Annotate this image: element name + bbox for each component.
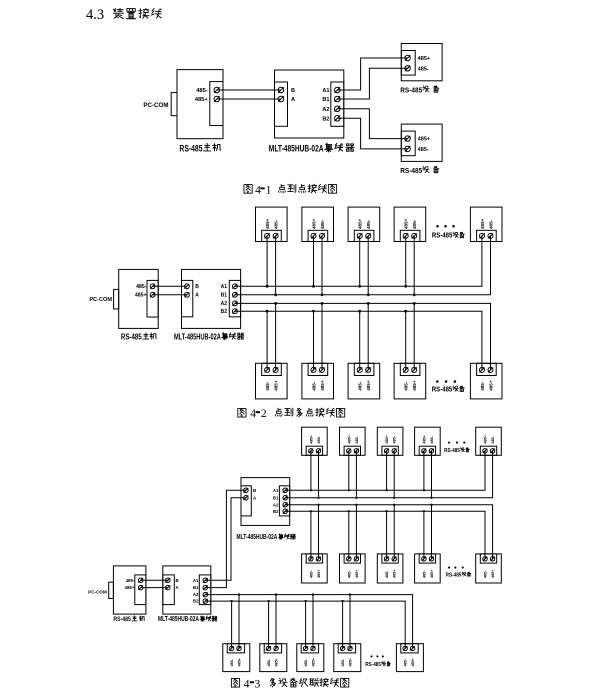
- fig3: device A3 screw 485+: [384, 449, 388, 453]
- fig3: device B5 screw 485+: [490, 557, 494, 561]
- fig3: RS-485 device C1 (bottom row) box: [223, 644, 250, 672]
- fig1: host COM port tab: [171, 93, 177, 116]
- svg-text:PC-COM: PC-COM: [89, 297, 112, 303]
- svg-text:485-: 485-: [422, 570, 426, 578]
- svg-text:1: 1: [266, 184, 272, 196]
- svg-text:485+: 485+: [135, 293, 147, 299]
- svg-text:485+: 485+: [349, 658, 353, 666]
- fig2: RS-485 device T4 (top row) box: [394, 207, 426, 241]
- fig2: hub screw B2: [233, 309, 238, 314]
- svg-text:485+: 485+: [320, 380, 325, 391]
- caption figure 4-2: [238, 408, 246, 417]
- svg-text:485-: 485-: [126, 578, 135, 583]
- caption figure 4-3: [231, 678, 239, 687]
- fig1: hub screw B2: [335, 116, 341, 122]
- svg-text:4: 4: [255, 184, 261, 196]
- svg-text:PC-COM: PC-COM: [88, 590, 107, 595]
- fig3: device C2 terminal strip: [264, 644, 281, 653]
- fig3: device C4 terminal strip: [338, 644, 355, 653]
- svg-text:485+: 485+: [317, 570, 321, 578]
- svg-text:485-: 485-: [358, 381, 363, 391]
- fig2: bus line A2: [235, 303, 491, 370]
- fig2: device U3 screw 485+: [366, 367, 371, 372]
- svg-text:B2: B2: [273, 509, 279, 514]
- fig2: device T3 screw 485+: [357, 233, 362, 238]
- fig2: device U4 screw 485-: [403, 367, 408, 372]
- svg-text:RS-485: RS-485: [365, 662, 381, 668]
- fig2: RS-485 device T2 (top row) box: [302, 207, 334, 241]
- svg-text:PC-COM: PC-COM: [143, 102, 168, 109]
- fig2: device T2 screw 485+: [311, 233, 316, 238]
- fig1: host screw 485+: [214, 96, 220, 102]
- fig3: device B2 screw 485+: [354, 557, 358, 561]
- svg-text:RS-485: RS-485: [432, 231, 453, 240]
- fig2: hub screw A: [185, 292, 190, 297]
- fig3: device C4 screw 485-: [340, 646, 344, 650]
- svg-text:B1: B1: [322, 97, 329, 103]
- fig3: device B5 terminal strip: [480, 554, 496, 563]
- svg-text:485+: 485+: [265, 218, 270, 229]
- svg-text:RS-485: RS-485: [113, 616, 131, 623]
- fig2: hub right terminal strip: [229, 280, 240, 316]
- fig3: device A2 screw 485+: [347, 449, 351, 453]
- fig1: host screw 485-: [214, 87, 220, 93]
- svg-text:485-: 485-: [491, 435, 495, 443]
- fig3: hub left terminal strip: [241, 486, 251, 516]
- fig3: hub MLT-485HUB-02A box: [241, 478, 290, 526]
- svg-text:485+: 485+: [275, 658, 279, 666]
- svg-text:B1: B1: [221, 293, 228, 299]
- fig3: host screw 485-: [138, 578, 143, 583]
- svg-text:485-: 485-: [230, 658, 234, 666]
- fig2: drop wire top device T1 485+ to A1: [266, 236, 268, 286]
- fig2: bus line B2: [235, 311, 482, 370]
- fig2: drop wire top device T3 485- to B1: [367, 236, 369, 295]
- fig3: hub screw B2: [203, 599, 208, 604]
- fig2: device U5 screw 485+: [488, 367, 493, 372]
- svg-text:485+: 485+: [480, 218, 485, 229]
- fig2: drop wire top device T1 485- to B1: [275, 236, 277, 295]
- fig3: hub left terminal strip: [163, 575, 175, 605]
- fig3: ellipsis top row: [448, 442, 450, 444]
- fig2: RS-485 device U4 (bottom row) box: [394, 363, 426, 399]
- fig3: device C2 screw 485-: [266, 646, 270, 650]
- svg-text:A1: A1: [221, 284, 228, 290]
- fig3: device C3 screw 485+: [311, 646, 315, 650]
- fig3: drop wire top device A3 485+ to A1: [386, 451, 388, 491]
- fig3: upper bus line A2: [285, 505, 492, 559]
- fig2: drop wire top device T3 485+ to A1: [359, 236, 361, 286]
- fig3: device C5 screw 485+: [410, 646, 414, 650]
- fig3: RS-485 device C5 (bottom row) box: [396, 644, 423, 672]
- fig2: device U1 screw 485-: [265, 367, 270, 372]
- fig3: device C1 screw 485-: [229, 646, 233, 650]
- fig2: device U2 screw 485+: [320, 367, 325, 372]
- svg-text:B1: B1: [193, 585, 199, 590]
- fig1: device D2 terminal strip: [401, 131, 415, 156]
- fig2: hub screw A1: [233, 284, 238, 289]
- fig1: host terminal strip: [210, 82, 223, 126]
- fig2: device T5 terminal strip: [477, 230, 497, 241]
- svg-text:RS-485: RS-485: [444, 448, 460, 454]
- fig3: riser wire middle device B4 485- to B2: [423, 511, 425, 559]
- svg-text:485+: 485+: [393, 570, 397, 578]
- fig3: wire host to lower hub A: [141, 587, 168, 589]
- fig3: device C5 terminal strip: [401, 644, 418, 653]
- svg-text:A2: A2: [273, 502, 279, 507]
- fig3: hub MLT-485HUB-02A box: [163, 566, 211, 614]
- fig3: hub screw A2: [283, 503, 288, 508]
- fig2: device U4 screw 485+: [412, 367, 417, 372]
- fig3: device C1 screw 485+: [237, 646, 241, 650]
- svg-text:485+: 485+: [238, 658, 242, 666]
- fig3: drop wire top device A1 485+ to A1: [310, 451, 312, 491]
- fig3: lower bus line A2: [205, 595, 412, 649]
- svg-text:485-: 485-: [311, 381, 316, 391]
- fig2: riser wire bottom device U2 485+ to A2: [321, 303, 323, 370]
- svg-text:4: 4: [244, 678, 250, 690]
- fig3: riser wire middle device B1 485- to B2: [310, 511, 312, 559]
- fig1: wire hub B2 to device D2 485-: [337, 118, 407, 149]
- fig3: device C1 terminal strip: [227, 644, 244, 653]
- fig3: upper bus line A1: [285, 451, 485, 491]
- svg-text:A2: A2: [221, 301, 228, 307]
- fig3: riser wire middle device B3 485+ to A2: [393, 505, 395, 559]
- svg-text:RS-485: RS-485: [446, 572, 462, 578]
- svg-text:MLT-485HUB-02A: MLT-485HUB-02A: [236, 534, 277, 541]
- fig3: device A5 screw 485-: [490, 449, 494, 453]
- fig3: RS-485 device A4 (top row) box: [415, 427, 441, 455]
- svg-text:B: B: [176, 578, 179, 583]
- fig3: RS-485 device C4 (bottom row) box: [334, 644, 361, 672]
- fig1: hub screw B: [278, 87, 284, 93]
- fig2: riser wire bottom device U1 485+ to A2: [275, 303, 277, 370]
- fig2: device U2 screw 485-: [311, 367, 316, 372]
- svg-text:485+: 485+: [125, 585, 135, 590]
- svg-text:485-: 485-: [385, 570, 389, 578]
- fig2: drop wire top device T2 485+ to A1: [313, 236, 315, 286]
- fig3: drop wire top device A2 485- to B1: [355, 451, 357, 498]
- fig3: device B4 terminal strip: [419, 554, 435, 563]
- fig3: host COM port tab: [109, 582, 114, 598]
- svg-text:A2: A2: [193, 592, 199, 597]
- fig3: RS-485 device A1 (top row) box: [302, 427, 328, 455]
- fig2: device T4 screw 485+: [403, 233, 408, 238]
- fig3: device A5 screw 485+: [483, 449, 487, 453]
- fig3: device A5 terminal strip: [480, 446, 496, 455]
- fig2: drop wire top device T4 485+ to A1: [405, 236, 407, 286]
- fig3: riser wire bottom device C1 485+ to A2: [238, 595, 240, 649]
- fig2: hub screw B: [185, 284, 190, 289]
- fig3: device A3 screw 485-: [392, 449, 396, 453]
- svg-text:485-: 485-: [484, 570, 488, 578]
- fig3: riser wire bottom device C3 485+ to A2: [312, 595, 314, 649]
- svg-text:485-: 485-: [309, 570, 313, 578]
- fig3: hub screw B: [244, 488, 249, 493]
- fig3: RS-485 device B5 (middle row) box: [476, 554, 502, 583]
- fig3: device B4 screw 485+: [429, 557, 433, 561]
- svg-text:485-: 485-: [404, 381, 409, 391]
- fig2: device T5 screw 485-: [488, 233, 493, 238]
- svg-text:485-: 485-: [355, 435, 359, 443]
- fig3: RS-485 device B3 (middle row) box: [377, 554, 403, 583]
- fig3: device A2 screw 485-: [354, 449, 358, 453]
- caption figure 4-1: [244, 185, 252, 194]
- fig2: device T1 screw 485+: [265, 233, 270, 238]
- fig3: riser wire bottom device C4 485+ to A2: [349, 595, 351, 649]
- fig2: RS-485 device U5 (bottom row) box: [470, 363, 502, 399]
- fig3: ellipsis bottom row: [370, 655, 372, 657]
- fig3: riser wire middle device B4 485+ to A2: [431, 505, 433, 559]
- fig3: RS-485 host box: [113, 566, 145, 614]
- svg-text:485-: 485-: [393, 435, 397, 443]
- svg-text:485-: 485-: [430, 435, 434, 443]
- svg-text:485+: 485+: [311, 218, 316, 229]
- fig2: hub screw A2: [233, 301, 238, 306]
- fig1: hub right terminal strip: [331, 82, 344, 126]
- svg-text:485-: 485-: [320, 219, 325, 229]
- fig2: RS-485 device U1 (bottom row) box: [256, 363, 288, 399]
- svg-text:485+: 485+: [273, 380, 278, 391]
- fig3: drop wire top device A3 485- to B1: [393, 451, 395, 498]
- fig2: device U3 terminal strip: [354, 363, 374, 375]
- svg-text:485-: 485-: [136, 284, 147, 290]
- svg-text:485+: 485+: [412, 380, 417, 391]
- svg-text:B1: B1: [273, 495, 279, 500]
- fig3: RS-485 device A5 (top row) box: [476, 427, 502, 455]
- fig2: device U3 screw 485-: [357, 367, 362, 372]
- svg-text:485-: 485-: [341, 658, 345, 666]
- svg-text:485-: 485-: [418, 147, 429, 153]
- fig1: device D1 screw 485-: [405, 66, 410, 71]
- fig3: cascade wire lower hub B1 to upper hub B: [205, 490, 246, 587]
- fig3: host terminal strip: [135, 575, 146, 605]
- fig3: device C4 screw 485+: [348, 646, 352, 650]
- fig1: wire hub B1 to device D1 485-: [337, 68, 407, 99]
- svg-text:485-: 485-: [304, 658, 308, 666]
- fig3: riser wire middle device B2 485- to B2: [348, 511, 350, 559]
- fig2: device T5 screw 485+: [480, 233, 485, 238]
- fig2: device U5 terminal strip: [477, 363, 497, 375]
- fig2: hub screw B1: [233, 292, 238, 297]
- fig3: RS-485 device C3 (bottom row) box: [297, 644, 324, 672]
- fig3: device B2 terminal strip: [344, 554, 360, 563]
- fig3: device A4 screw 485-: [429, 449, 433, 453]
- fig3: RS-485 device A3 (top row) box: [377, 427, 403, 455]
- svg-text:A1: A1: [273, 488, 279, 493]
- fig3: device C3 screw 485-: [303, 646, 307, 650]
- fig2: bus line B1: [235, 236, 491, 295]
- svg-text:485+: 485+: [385, 435, 389, 443]
- fig2: RS-485 device T5 (top row) box: [470, 207, 502, 241]
- fig3: device A1 screw 485-: [316, 449, 320, 453]
- fig2: riser wire bottom device U3 485+ to A2: [367, 303, 369, 370]
- fig3: device B2 screw 485-: [347, 557, 351, 561]
- fig2: ellipsis bottom row: [436, 380, 439, 383]
- svg-text:A1: A1: [322, 88, 329, 94]
- svg-text:RS-485: RS-485: [179, 143, 202, 153]
- fig3: lower bus line B2: [205, 601, 405, 648]
- svg-text:MLT-485HUB-02A: MLT-485HUB-02A: [158, 616, 199, 623]
- svg-text:485-: 485-: [317, 435, 321, 443]
- fig3: cascade wire lower hub A1 to upper hub A: [205, 498, 246, 581]
- svg-text:RS-485: RS-485: [121, 332, 142, 341]
- svg-text:A: A: [195, 293, 199, 299]
- fig1: device D1 terminal strip: [401, 51, 415, 76]
- fig3: device A4 screw 485+: [422, 449, 426, 453]
- fig1: RS-485 device D1 box: [401, 44, 442, 81]
- fig1: RS-485 host box: [177, 70, 223, 139]
- svg-text:B2: B2: [193, 599, 199, 604]
- svg-text:B2: B2: [221, 309, 228, 315]
- fig3: device A4 terminal strip: [419, 446, 435, 455]
- fig3: device B5 screw 485-: [483, 557, 487, 561]
- svg-text:485+: 485+: [488, 380, 493, 391]
- svg-text:485+: 485+: [312, 658, 316, 666]
- svg-text:485+: 485+: [195, 97, 209, 103]
- svg-text:A1: A1: [193, 578, 199, 583]
- svg-text:4: 4: [250, 408, 256, 420]
- fig2: device T1 screw 485-: [273, 233, 278, 238]
- fig2: drop wire top device T2 485- to B1: [321, 236, 323, 295]
- fig3: drop wire top device A2 485+ to A1: [348, 451, 350, 491]
- svg-text:485+: 485+: [491, 570, 495, 578]
- fig2: RS-485 host box: [119, 269, 159, 328]
- fig2: RS-485 device U2 (bottom row) box: [302, 363, 334, 399]
- svg-text:485+: 485+: [484, 435, 488, 443]
- svg-text:B: B: [253, 488, 256, 493]
- fig3: ellipsis middle row: [448, 567, 450, 569]
- fig2: host screw 485-: [150, 284, 155, 289]
- fig3: RS-485 device A2 (top row) box: [340, 427, 366, 455]
- fig3: drop wire top device A1 485- to B1: [318, 451, 320, 498]
- fig3: device B1 screw 485-: [309, 557, 313, 561]
- svg-text:485+: 485+: [347, 435, 351, 443]
- svg-text:485+: 485+: [366, 380, 371, 391]
- fig1: RS-485 device D2 box: [401, 124, 442, 161]
- fig1: device D1 screw 485+: [405, 55, 410, 60]
- svg-text:485-: 485-: [418, 66, 429, 72]
- fig1: wire host 485+ to hub A: [217, 98, 281, 100]
- fig3: device B1 screw 485+: [316, 557, 320, 561]
- fig2: device T4 terminal strip: [400, 230, 420, 241]
- fig3: RS-485 device B1 (middle row) box: [302, 554, 328, 583]
- svg-text:485-: 485-: [480, 381, 485, 391]
- fig3: riser wire middle device B1 485+ to A2: [318, 505, 320, 559]
- fig3: hub screw A1: [203, 578, 208, 583]
- fig3: RS-485 device B2 (middle row) box: [340, 554, 366, 583]
- fig2: RS-485 device T1 (top row) box: [256, 207, 288, 241]
- fig2: RS-485 device T3 (top row) box: [348, 207, 380, 241]
- fig3: riser wire bottom device C2 485+ to A2: [275, 595, 277, 649]
- fig3: riser wire middle device B2 485+ to A2: [355, 505, 357, 559]
- svg-text:MLT-485HUB-02A: MLT-485HUB-02A: [174, 332, 221, 341]
- fig3: RS-485 device B4 (middle row) box: [415, 554, 441, 583]
- fig2: riser wire bottom device U4 485- to B2: [405, 311, 407, 370]
- fig1: device D2 screw 485-: [405, 146, 410, 151]
- fig2: host screw 485+: [150, 292, 155, 297]
- fig1: device D2 screw 485+: [405, 136, 410, 141]
- svg-text:485+: 485+: [309, 435, 313, 443]
- fig1: hub screw A: [278, 96, 284, 102]
- svg-text:3: 3: [255, 678, 261, 690]
- fig3: hub screw B1: [283, 496, 288, 501]
- svg-text:B: B: [195, 284, 199, 290]
- fig2: device T3 terminal strip: [354, 230, 374, 241]
- svg-text:485+: 485+: [411, 658, 415, 666]
- fig2: riser wire bottom device U3 485- to B2: [359, 311, 361, 370]
- fig3: hub screw A2: [203, 592, 208, 597]
- fig3: device B4 screw 485-: [422, 557, 426, 561]
- fig2: device T1 terminal strip: [262, 230, 282, 241]
- svg-text:MLT-485HUB-02A: MLT-485HUB-02A: [269, 144, 324, 154]
- fig1: wire hub A2 to device D2 485+: [337, 109, 407, 139]
- fig2: device U5 screw 485-: [480, 367, 485, 372]
- svg-text:A: A: [253, 495, 257, 500]
- fig1: hub screw A2: [335, 106, 341, 112]
- fig2: wire host to hub A: [153, 294, 187, 296]
- svg-text:B: B: [291, 88, 295, 94]
- fig2: host terminal strip: [147, 280, 158, 317]
- svg-text:485-: 485-: [488, 219, 493, 229]
- fig3: riser wire bottom device C4 485- to B2: [342, 601, 344, 648]
- fig3: hub screw A: [244, 496, 249, 501]
- fig2: host COM port tab: [114, 289, 119, 309]
- svg-text:A: A: [291, 97, 295, 103]
- fig3: drop wire top device A4 485+ to A1: [423, 451, 425, 491]
- svg-text:485+: 485+: [418, 137, 431, 143]
- fig3: device C2 screw 485+: [274, 646, 278, 650]
- svg-text:485+: 485+: [355, 570, 359, 578]
- svg-text:485+: 485+: [358, 218, 363, 229]
- fig2: device U1 terminal strip: [262, 363, 282, 375]
- fig3: host screw 485+: [138, 585, 143, 590]
- fig1: hub screw B1: [335, 96, 341, 102]
- fig1: wire hub A1 to device D1 485+: [337, 58, 407, 90]
- svg-text:4.3: 4.3: [86, 7, 104, 23]
- svg-text:485+: 485+: [422, 435, 426, 443]
- svg-text:RS-485: RS-485: [400, 166, 422, 175]
- fig3: device B3 screw 485+: [392, 557, 396, 561]
- fig2: RS-485 device U3 (bottom row) box: [348, 363, 380, 399]
- fig1: wire host 485- to hub B: [217, 89, 281, 91]
- fig1: hub MLT-485HUB-02A box: [275, 70, 344, 138]
- fig2: bus line A1: [235, 236, 482, 286]
- svg-text:485-: 485-: [196, 88, 208, 94]
- svg-text:485-: 485-: [267, 658, 271, 666]
- fig2: riser wire bottom device U2 485- to B2: [313, 311, 315, 370]
- fig3: device A1 screw 485+: [309, 449, 313, 453]
- fig1: hub screw A1: [335, 87, 341, 93]
- fig3: upper bus line B2: [285, 511, 485, 559]
- fig3: riser wire bottom device C3 485- to B2: [305, 601, 307, 648]
- fig3: hub screw B1: [203, 585, 208, 590]
- svg-text:485-: 485-: [404, 658, 408, 666]
- fig3: hub screw A1: [283, 488, 288, 493]
- svg-text:485-: 485-: [273, 219, 278, 229]
- svg-text:B2: B2: [322, 116, 329, 122]
- fig2: device T3 screw 485-: [366, 233, 371, 238]
- fig3: device C3 terminal strip: [301, 644, 318, 653]
- fig2: hub left terminal strip: [182, 280, 193, 316]
- fig2: device T2 terminal strip: [308, 230, 328, 241]
- fig3: riser wire bottom device C2 485- to B2: [268, 601, 270, 648]
- svg-text:485+: 485+: [404, 218, 409, 229]
- fig2: wire host to hub B: [153, 285, 187, 287]
- fig3: device C5 screw 485-: [403, 646, 407, 650]
- fig3: hub screw B2: [283, 509, 288, 514]
- fig3: riser wire bottom device C1 485- to B2: [231, 601, 233, 648]
